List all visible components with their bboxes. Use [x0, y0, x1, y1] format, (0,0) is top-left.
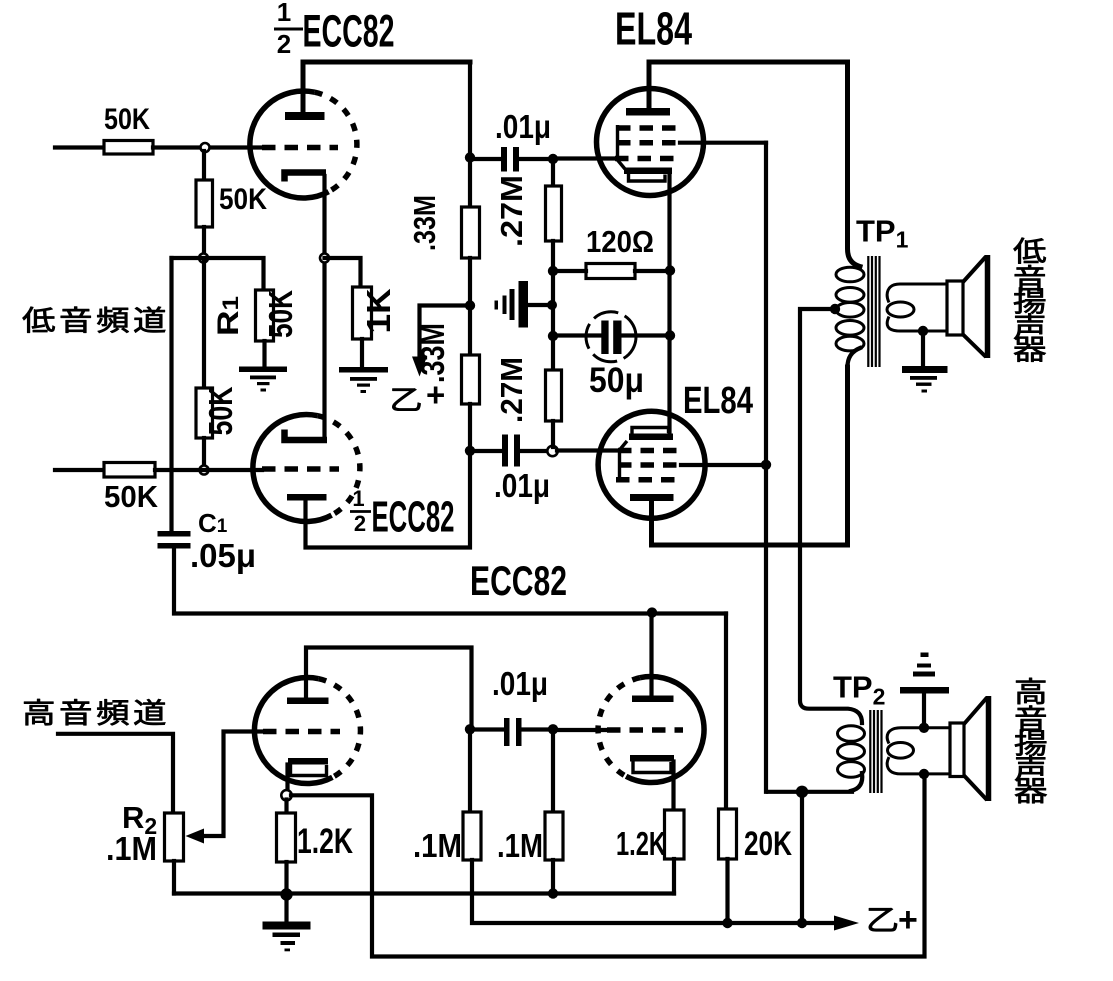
- wire EL84 no1 anode top run: [649, 60, 848, 65]
- vertical plate chain x470: [468, 62, 472, 207]
- arrow B+ mid pointing down: [412, 357, 427, 377]
- capacitor C1 .05u plates: [158, 531, 191, 549]
- node .1M no2 ground: [548, 888, 558, 898]
- resistor 50K input 2 (horizontal): [104, 463, 155, 478]
- wire feedback from V3 cathode to TP2 secondary: [291, 774, 925, 957]
- wire 1K to ground: [360, 339, 364, 367]
- resistor .1M no2: [545, 812, 563, 860]
- svg-text:50K: 50K: [202, 386, 239, 435]
- wire R2 bottom to ground bus: [172, 861, 176, 894]
- EL84 no1 grid rows: [615, 128, 680, 159]
- svg-text:.1M: .1M: [106, 830, 157, 867]
- tube V3 cathode hook: [291, 765, 327, 776]
- wire ground stem below bus: [284, 896, 288, 922]
- EL84 no1 cathode bar: [624, 168, 672, 175]
- tube V4 cathode bar: [630, 755, 674, 762]
- tube V2 anode bar with left upturn: [285, 430, 328, 441]
- svg-text:ECC82: ECC82: [303, 6, 395, 57]
- TP2 secondary bottom lead: [887, 757, 950, 774]
- node B+ tap junction: [465, 300, 475, 310]
- node B+ rail start nodes already above; arrow B+ right: [834, 916, 859, 931]
- wire EL84 no1 screen to g2 bus: [680, 141, 766, 145]
- wire input channel 1 left segment: [55, 145, 104, 149]
- wire V1 anode top run to .33M chain: [303, 60, 470, 65]
- wire from 50K to tube V1 grid: [153, 145, 262, 149]
- label 1/2 ECC82 top: [274, 0, 395, 59]
- node grid divider junction: [199, 254, 208, 263]
- wire input channel 2 left segment: [55, 468, 104, 472]
- TP1 secondary top lead: [887, 284, 947, 303]
- tube V4 anode bar: [632, 696, 674, 703]
- wire R1 to ground: [262, 341, 266, 366]
- resistor 1.2K no1: [277, 813, 296, 862]
- svg-text:2: 2: [354, 511, 366, 536]
- wire C1 down and right to tetrode feed line: [174, 549, 726, 614]
- node TP2 bottom B+: [796, 786, 808, 798]
- tube V3 cathode bar: [288, 758, 328, 765]
- svg-text:1: 1: [352, 486, 364, 511]
- resistor 1.2K no2: [665, 810, 685, 859]
- wire cathode node to 1K: [325, 258, 361, 287]
- node speaker1 ground tap: [918, 326, 928, 336]
- wire input2 to tube V2 grid: [155, 468, 262, 472]
- label 乙+ bottom: [869, 908, 897, 931]
- tube V4 cathode hook: [633, 762, 671, 773]
- wire .01u bottom leads: [470, 727, 549, 731]
- svg-text:50μ: 50μ: [589, 361, 644, 400]
- potentiometer R2 .1M: [165, 813, 184, 861]
- wire between .33M resistors: [468, 258, 472, 355]
- wire EL84 no2 anode down right and up to TP1: [652, 367, 848, 545]
- resistor 1K cathode: [353, 287, 372, 339]
- resistor .27M upper: [546, 186, 562, 241]
- wire 50K lower to input2 node: [202, 438, 206, 466]
- arrow R2 wiper: [186, 829, 205, 844]
- wire 1.2K no1 to ground bus: [284, 862, 288, 894]
- wire speaker1 ground stem: [921, 331, 925, 366]
- tube V1 grid dashes: [262, 145, 338, 151]
- wire EL84 cathodes common line: [667, 174, 671, 436]
- wire node1 down to 50K vertical: [202, 151, 206, 180]
- label high channel 高音頻道: [24, 699, 165, 725]
- wire row y258 to R1 drop: [172, 258, 264, 290]
- wire plate load .1M no1 drop: [468, 733, 472, 812]
- tube V3 anode bar: [287, 698, 329, 705]
- speaker 2 driver box: [950, 723, 964, 777]
- wire V4 anode lead: [649, 613, 653, 696]
- svg-text:.01μ: .01μ: [494, 467, 550, 504]
- tube V4 triode ECC82b (bottom right, mirrored): [598, 677, 704, 783]
- node TP1 center tap: [830, 304, 840, 314]
- node ground bus main: [280, 888, 292, 900]
- capacitor .01u bottom plates: [504, 718, 522, 746]
- label 1/2 ECC82 mid: [350, 486, 455, 542]
- EL84 no1 cathode hook: [629, 174, 666, 181]
- tube V4 grid dashes: [607, 727, 683, 733]
- label 高音揚声器 vertical: [1015, 678, 1047, 803]
- node .01u mid right (open): [547, 446, 557, 456]
- svg-text:.01μ: .01μ: [492, 665, 548, 702]
- wire V3 cathode lead: [285, 765, 289, 792]
- wire speaker2 ground stem up: [922, 693, 926, 728]
- node 120R left: [548, 266, 558, 276]
- wire V3 cathode to 1.2K: [284, 800, 288, 814]
- svg-text:EL84: EL84: [683, 380, 753, 422]
- TP1 primary bottom curve: [848, 348, 861, 367]
- wire y613 elbow down to 20K: [724, 614, 728, 810]
- wire .01u mid leads: [470, 449, 548, 453]
- node .01u top left: [465, 152, 475, 162]
- EL84 no2 cathode bar (top): [629, 434, 673, 441]
- ground above speaker2 (inverted): [900, 653, 949, 694]
- wire .33M lower to node 451: [468, 404, 472, 451]
- TP1 secondary loop: [887, 302, 914, 317]
- resistor .33M upper: [462, 207, 480, 258]
- resistor .1M no1: [463, 812, 481, 860]
- capacitor .01u top plates: [501, 147, 519, 172]
- wire B+ tap elbow: [420, 306, 469, 359]
- svg-text:ECC82: ECC82: [470, 557, 567, 604]
- node 120R right: [665, 265, 675, 275]
- label low channel 低音頻道: [23, 307, 166, 333]
- resistor .33M lower: [462, 355, 480, 404]
- ground below 1K: [339, 367, 388, 393]
- wire grid leak .1M no2 drop: [551, 733, 555, 812]
- wire TP1 tap to B+ riser and down to TP2 top: [800, 309, 862, 723]
- svg-text:.33M: .33M: [407, 195, 442, 251]
- svg-text:2: 2: [277, 29, 291, 59]
- svg-text:.27M: .27M: [494, 175, 529, 247]
- tube V3 grid dashes: [263, 729, 340, 735]
- svg-text:.27M: .27M: [494, 357, 529, 423]
- wire g2 bus down to TP2 bottom: [764, 143, 768, 792]
- tube V1 triode 1/2 ECC82 (top left): [250, 91, 357, 198]
- svg-text:50K: 50K: [104, 479, 159, 514]
- wire 120R leads: [553, 269, 670, 273]
- tube V2 triode 1/2 ECC82 (mid left): [253, 415, 360, 522]
- node coupling 451 left: [465, 446, 475, 456]
- EL84 no1 anode lead: [647, 62, 652, 108]
- resistor 50K vertical upper: [196, 180, 213, 227]
- svg-text:.01μ: .01μ: [495, 108, 551, 145]
- svg-text:EL84: EL84: [615, 3, 692, 55]
- svg-text:50K: 50K: [262, 290, 299, 338]
- tube V1 cathode bar: [285, 173, 327, 182]
- tube V1 anode lead up: [301, 62, 306, 112]
- wire 50K vertical to node row 258: [202, 227, 206, 258]
- wire V2 cathode down and right to coupling node: [306, 451, 471, 548]
- node speaker2 bottom feedback tap: [919, 769, 929, 779]
- resistor 20K: [719, 809, 737, 859]
- resistor 50K input 1 (horizontal): [104, 141, 153, 155]
- wire V1 cathode down through node to V2 anode: [322, 176, 326, 440]
- capacitor 50u electrolytic: [586, 312, 636, 362]
- svg-text:.1M: .1M: [413, 827, 462, 864]
- svg-text:50K: 50K: [219, 183, 267, 216]
- svg-text:+: +: [898, 901, 918, 939]
- wire .27M upper to .27M lower: [551, 241, 555, 370]
- TP1 secondary bottom lead: [887, 317, 947, 332]
- node V1 cathode junction: [320, 254, 329, 263]
- wire R2 wiper riser to V3 grid: [203, 732, 263, 837]
- svg-text:ECC82: ECC82: [372, 493, 455, 542]
- TP2 primary bottom curve to bottom wire: [768, 773, 862, 792]
- wire V4 cathode to 1.2K no2: [671, 762, 675, 811]
- wire 50u leads: [553, 333, 670, 337]
- wire to V4 grid: [553, 728, 607, 732]
- wire input high channel: [58, 734, 173, 813]
- wire to EL84 no2 grid: [557, 448, 616, 452]
- wire 1.2K no2 to ground bus: [672, 859, 676, 894]
- node 20K B+: [722, 918, 732, 928]
- tube V2 grid dashes: [262, 466, 339, 472]
- wire 20K to B+ rail: [725, 859, 729, 923]
- vertical grid-leak chain x553: [551, 162, 555, 186]
- ground below speaker1: [902, 366, 948, 393]
- wire tube V3 anode run to coupling: [306, 648, 472, 726]
- node ground stem: [547, 300, 557, 310]
- TP1 primary loops: [836, 267, 864, 351]
- TP2 core lines: [870, 710, 881, 793]
- svg-text:1K: 1K: [360, 288, 397, 333]
- wire left branch from node 258 down to C1: [169, 258, 173, 531]
- TP2 secondary loop: [888, 743, 914, 759]
- resistor R1 50K (grid leak): [256, 290, 274, 341]
- node B+ rail TP2: [797, 918, 807, 928]
- svg-text:.33M: .33M: [414, 323, 451, 383]
- speaker 1 horn mouth: [985, 255, 991, 358]
- tube V2 cathode bar: [287, 494, 327, 501]
- EL84 no2 cathode hook: [632, 428, 669, 434]
- wire .27M lower to node 451: [551, 421, 555, 447]
- node speaker2 top ground tap: [919, 723, 929, 733]
- EL84 no2 anode bar (bottom): [630, 494, 674, 501]
- ground sideways (cathode network): [495, 281, 550, 328]
- transformer TP2 primary loops: [838, 726, 865, 778]
- resistor 50K vertical lower: [196, 388, 213, 438]
- node g2 bus junction: [761, 460, 771, 470]
- wire to EL84 no1 grid: [553, 156, 616, 160]
- svg-text:120Ω: 120Ω: [586, 224, 654, 259]
- node 50u left: [548, 331, 558, 341]
- svg-text:50K: 50K: [104, 103, 150, 136]
- node input 2 junction: [200, 466, 209, 475]
- node input 1 junction: [201, 143, 210, 152]
- node .01u top right: [548, 154, 558, 164]
- tube V1 anode bar: [285, 112, 325, 120]
- tube V3 triode ECC82a (bottom left): [254, 678, 360, 784]
- speaker 1 driver box: [947, 281, 963, 335]
- resistor .27M lower: [546, 370, 562, 421]
- wire .1M no2 to ground bus: [551, 860, 555, 894]
- EL84 no2 grid strap: [620, 441, 628, 483]
- wire ground bus: [174, 891, 674, 895]
- speaker 1 horn: [963, 257, 986, 358]
- svg-text:20K: 20K: [744, 825, 792, 863]
- tube EL84 no1 (pentode top): [597, 89, 704, 196]
- node V3 cathode (open): [281, 790, 291, 800]
- EL84 no1 grid strap: [618, 125, 626, 169]
- svg-text:.1M: .1M: [497, 827, 543, 864]
- label 乙 (mid B+): [392, 389, 420, 411]
- node .01u bottom left: [465, 724, 475, 734]
- node 50u right: [665, 330, 675, 340]
- wire node 258 down to 50K vertical lower: [202, 262, 206, 388]
- node .01u bottom right: [548, 724, 558, 734]
- svg-text:1.2K: 1.2K: [616, 825, 666, 862]
- wire TP2 bottom down to B+ rail: [800, 796, 804, 923]
- TP2 secondary top lead: [887, 728, 950, 744]
- svg-text:1.2K: 1.2K: [297, 822, 353, 861]
- transformer TP1 lead-in from top: [848, 62, 861, 267]
- resistor 120R (horizontal): [586, 264, 635, 279]
- EL84 no2 grid rows: [616, 451, 681, 480]
- label 低音揚声器 vertical: [1014, 238, 1046, 362]
- ground below R1: [239, 367, 287, 392]
- wire .1M no1 to B+ rail: [472, 860, 834, 923]
- speaker 2 horn: [964, 698, 987, 801]
- tube EL84 no2 (pentode lower, mirrored): [598, 411, 705, 518]
- TP1 core lines: [868, 256, 879, 367]
- node y613 to V4 anode: [647, 607, 657, 617]
- wire EL84 no2 screen to g2 bus: [681, 463, 766, 467]
- EL84 no1 anode bar: [626, 108, 670, 116]
- svg-text:.05μ: .05μ: [190, 537, 256, 574]
- svg-text:1: 1: [277, 0, 291, 27]
- speaker 2 horn mouth: [986, 696, 992, 801]
- ground below bus: [263, 922, 311, 952]
- capacitor .01u mid plates: [502, 435, 520, 467]
- wire .01u top leads: [470, 157, 553, 161]
